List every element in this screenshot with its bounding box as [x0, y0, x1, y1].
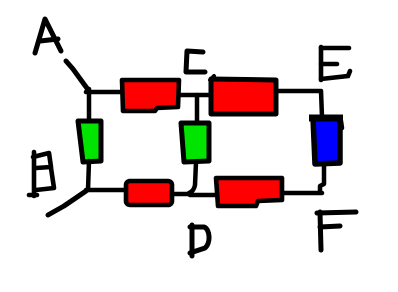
resistor R2 (red, top-centre) [211, 79, 276, 114]
resistor R6 (red, bottom-left) [126, 181, 172, 205]
wire: resistor R3 (green) down to bottom-left junction [88, 161, 89, 190]
node E label [321, 47, 350, 80]
resistor R4 (green, centre) [181, 123, 209, 162]
wire: resistor R7 to bottom-right corner [282, 191, 322, 196]
resistor R2 top-left corner nub [210, 76, 214, 80]
resistor R7 (red, bottom-centre) [216, 178, 282, 206]
wire: node D junction to resistor R7 [190, 193, 216, 198]
wire: bottom-left junction to resistor R6 [86, 188, 126, 193]
resistor R1 (red, top-left) [122, 80, 179, 111]
wire: top-left junction to resistor R1 [86, 90, 123, 95]
node C label [186, 51, 205, 72]
node A label [35, 19, 61, 53]
wire: resistor R1 to node C junction [179, 93, 211, 98]
node F label [317, 212, 356, 250]
resistor R5 top-right nub [341, 121, 342, 128]
resistor R5 (blue, right) [313, 118, 340, 164]
wire: resistor R4 (green) down to node D junction [189, 162, 196, 193]
wire: resistor R6 to node D junction [172, 192, 192, 197]
wire: node C junction down to resistor R4 (green, centre) [195, 95, 200, 123]
wire: top-left junction down to resistor R3 (green) [87, 89, 92, 122]
wire: resistor R2 to node E corner, down to resistor R5 (blue) [276, 91, 322, 117]
wire: lead from node A to top-left junction [66, 61, 89, 91]
resistor R5 wider top cap [309, 115, 343, 122]
wire: lead from node B to bottom-left junction [48, 191, 86, 215]
node D label [190, 225, 209, 256]
node B label [29, 152, 54, 196]
wire: resistor R5 (blue) down to bottom-right corner [320, 163, 324, 192]
resistor R3 (green, left) [78, 121, 101, 162]
